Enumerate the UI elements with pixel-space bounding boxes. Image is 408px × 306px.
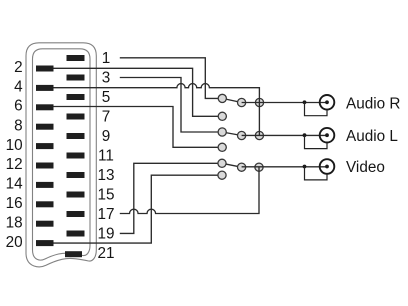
slant wire row Audio L [222, 132, 241, 136]
RCA jack Video [303, 159, 335, 180]
svg-text:5: 5 [102, 89, 111, 106]
svg-text:3: 3 [102, 69, 111, 86]
SCART pin 18 [36, 221, 54, 227]
SCART pin 20 [36, 240, 54, 246]
svg-text:21: 21 [97, 245, 114, 262]
SCART pin 16 [36, 201, 54, 207]
terminal circle C Audio R [255, 98, 263, 106]
SCART pin 12 [36, 163, 54, 169]
terminal circle pin20 [218, 171, 226, 179]
SCART pin 2 [36, 66, 54, 72]
terminal circle B Audio R [238, 98, 246, 106]
SCART pin 11 [67, 153, 85, 159]
svg-text:1: 1 [102, 50, 111, 67]
wire Audio R row to RCA [242, 102, 327, 104]
SCART pin 6 [36, 104, 54, 110]
wire Audio L row to RCA [242, 134, 327, 136]
SCART pin 14 [36, 182, 54, 188]
svg-text:2: 2 [14, 59, 23, 76]
slant wire row Audio R [222, 98, 241, 102]
svg-text:7: 7 [102, 108, 111, 125]
terminal circle A Video [218, 159, 226, 167]
svg-text:14: 14 [6, 176, 24, 193]
svg-text:9: 9 [102, 128, 111, 145]
svg-text:11: 11 [98, 147, 114, 164]
wire pin 1 [120, 58, 223, 99]
SCART pin 9 [67, 133, 85, 139]
SCART pin 15 [67, 192, 85, 198]
SCART pin 17 [67, 211, 85, 217]
wire pin 4 ground with hops [53, 84, 259, 136]
SCART pin 1 [67, 55, 85, 61]
svg-text:12: 12 [6, 156, 23, 173]
SCART pin 5 [67, 94, 85, 100]
svg-text:18: 18 [6, 214, 23, 231]
SCART pin 19 [67, 231, 85, 237]
terminal circle pin6 [218, 143, 226, 151]
svg-text:13: 13 [97, 167, 114, 184]
svg-text:Audio R: Audio R [346, 95, 400, 112]
SCART connector outer shell outline [26, 43, 96, 267]
svg-text:19: 19 [97, 225, 114, 242]
svg-text:4: 4 [14, 79, 23, 96]
terminal circle B Audio L [238, 131, 246, 139]
wire pin 19 [120, 163, 222, 233]
svg-text:15: 15 [97, 186, 114, 203]
svg-text:17: 17 [97, 206, 114, 223]
SCART connector inner shell outline [33, 49, 91, 260]
SCART pin 4 [36, 85, 54, 91]
svg-text:Video: Video [346, 159, 385, 176]
SCART pin 21 [65, 251, 82, 257]
terminal circle pin2 [218, 112, 226, 120]
terminal circle A Audio L [218, 128, 226, 136]
terminal circle C Audio L [255, 131, 263, 139]
svg-text:20: 20 [6, 234, 23, 251]
terminal circle A Audio R [218, 94, 226, 102]
SCART pin 13 [67, 172, 85, 178]
wire pin 3 [120, 78, 222, 133]
RCA jack Audio L [303, 128, 335, 149]
wire pin 2 [53, 68, 222, 116]
terminal circle C Video [255, 163, 263, 171]
svg-text:16: 16 [6, 195, 23, 212]
wire pin 20 [53, 175, 222, 243]
RCA jack Audio R [303, 95, 335, 116]
terminal circle B Video [238, 163, 246, 171]
SCART pin 8 [36, 124, 54, 130]
SCART pin 3 [67, 75, 85, 81]
svg-text:Audio L: Audio L [346, 128, 398, 145]
SCART pin 10 [36, 143, 54, 149]
svg-text:10: 10 [6, 137, 23, 154]
wire pin 17 ground with hops [120, 167, 259, 213]
wire Video row to RCA [242, 166, 327, 168]
svg-text:8: 8 [14, 117, 23, 134]
SCART pin 7 [67, 114, 85, 120]
svg-text:6: 6 [14, 98, 23, 115]
slant wire row Video [222, 163, 242, 167]
wire pin 6 [53, 107, 222, 148]
